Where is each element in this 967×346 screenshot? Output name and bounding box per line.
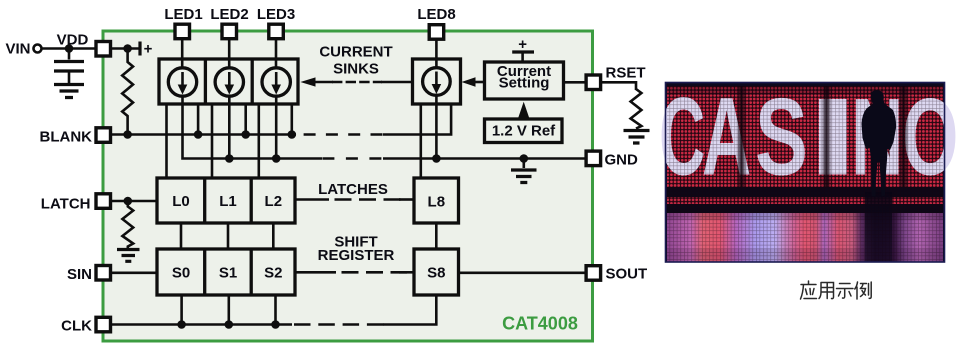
wire sink8 mid to GND rail — [435, 96, 438, 159]
wire CLK rail solid left — [111, 323, 292, 326]
svg-text:S2: S2 — [264, 265, 282, 282]
wire SHIFT line to S8 — [399, 271, 414, 274]
photo border — [666, 83, 945, 263]
pin SIN — [96, 266, 111, 281]
capacitor C1 top lead — [68, 49, 71, 60]
wire L2 to S2 — [272, 223, 275, 249]
node BLANK sink1 — [194, 130, 203, 139]
ground below R3 — [624, 131, 650, 144]
panel seam 1 — [736, 86, 747, 187]
wire CURRENT SINKS arrow dashed — [332, 81, 382, 84]
pin VDD — [96, 42, 111, 57]
svg-text:SOUT: SOUT — [606, 265, 648, 282]
wire sink8 left to L8 — [419, 104, 422, 178]
dot lattice overlay — [667, 86, 943, 262]
supply tap above Current Setting — [521, 53, 524, 63]
svg-text:LED1: LED1 — [164, 6, 202, 23]
wire L1 to S1 — [227, 223, 230, 249]
wire sink3 left to L2 — [257, 104, 260, 178]
node CLK S0 — [177, 320, 186, 329]
svg-text:LED8: LED8 — [417, 6, 455, 23]
pin LATCH — [96, 194, 111, 209]
panel seam 2 — [821, 86, 832, 187]
pin SOUT — [586, 266, 601, 281]
person silhouette — [862, 90, 897, 196]
current source circle I1 — [168, 68, 196, 96]
wire Current Setting to sink8 arrow — [471, 81, 486, 84]
svg-text:RSET: RSET — [606, 65, 646, 82]
pin LED1 — [175, 24, 190, 39]
node BLANK sink2 — [241, 130, 250, 139]
current source circle I2 — [215, 68, 243, 96]
wire CLK rail elbow up to S8 — [383, 295, 436, 325]
wire BLANK rail solid left — [111, 133, 296, 136]
wire GND rail dashed — [322, 157, 385, 160]
svg-text:CAT4008: CAT4008 — [502, 314, 578, 334]
arrow in I2 — [228, 72, 231, 86]
wire L8 to S8 — [435, 223, 438, 249]
svg-text:BLANK: BLANK — [40, 128, 93, 145]
node CLK S2 — [271, 320, 280, 329]
svg-text:S0: S0 — [172, 265, 190, 282]
wire VIN to VDD pin — [42, 47, 96, 50]
wire LATCH pin to L0 — [111, 200, 157, 203]
wire S8 to SOUT pin — [459, 271, 586, 274]
svg-text:SINKS: SINKS — [333, 60, 379, 77]
char 应 — [801, 281, 817, 299]
ground symbol inside chip at GND rail — [522, 159, 525, 169]
panel seam 3 — [898, 86, 909, 187]
wire SHIFT line solid left — [295, 271, 336, 274]
arrow in I8 — [435, 72, 438, 86]
pin LED3 — [269, 24, 284, 39]
latch L8 box — [414, 178, 459, 223]
shift S8 box — [414, 249, 459, 295]
char 例 — [855, 282, 871, 299]
arrowhead into sink8 — [462, 77, 476, 87]
wire sink1 right to BLANK — [197, 104, 200, 135]
svg-text:CURRENT: CURRENT — [319, 44, 392, 61]
svg-text:S1: S1 — [219, 265, 237, 282]
wall top dimming — [667, 86, 943, 95]
svg-text:L8: L8 — [428, 194, 446, 211]
pin RSET — [586, 75, 601, 90]
wire S0 to CLK rail — [180, 295, 183, 325]
svg-text:LATCH: LATCH — [41, 195, 91, 212]
pin CLK — [96, 317, 111, 332]
resistor R3 RSET — [631, 89, 642, 129]
char 示 — [837, 284, 854, 299]
node BLANK sink3 — [288, 130, 297, 139]
LED wall red dot background — [667, 86, 943, 187]
arrowheads — [300, 77, 529, 118]
wire Current Setting to RSET — [563, 81, 586, 84]
wire BLANK rail dashed — [304, 133, 385, 136]
floor — [667, 213, 943, 262]
wire sink1 left to L0 — [165, 104, 168, 178]
svg-text:L0: L0 — [172, 193, 190, 210]
svg-text:L2: L2 — [265, 193, 283, 210]
wire LATCHES line to L8 — [399, 198, 414, 201]
char 用 — [819, 283, 834, 299]
ground below R2 — [117, 250, 140, 262]
application photo: LED CASINO display — [659, 75, 958, 262]
caption 应用示例 (drawn strokes) — [801, 281, 872, 299]
capacitor C1 bottom lead — [68, 73, 71, 84]
svg-text:LATCHES: LATCHES — [318, 181, 388, 198]
wire S2 to CLK rail — [274, 295, 277, 325]
arrow in I1 — [181, 72, 184, 86]
wire LED1 stem — [181, 40, 184, 69]
latch row box L0 L1 L2 — [157, 178, 295, 223]
current sink bank box — [159, 59, 298, 104]
svg-text:VDD: VDD — [57, 32, 89, 49]
arrow in I3 — [275, 72, 278, 86]
svg-text:REGISTER: REGISTER — [318, 247, 395, 264]
1.2 V Ref box — [485, 119, 563, 143]
wire sink2 mid to GND rail — [228, 96, 231, 159]
wire L0 to S0 — [180, 223, 183, 249]
wire SIN pin to S0 — [111, 271, 157, 274]
node CLK S1 — [225, 320, 234, 329]
red dotted strip in band — [667, 197, 943, 204]
svg-text:S8: S8 — [427, 265, 445, 282]
pin LED2 — [222, 24, 237, 39]
resistor R1 VDD pull to BLANK — [122, 49, 133, 135]
pin LED8 — [429, 25, 444, 40]
arrowhead 1.2V Ref up — [518, 102, 529, 118]
resistor R2 LATCH pulldown — [122, 201, 133, 248]
wire S1 to CLK rail — [228, 295, 231, 325]
capacitor C1 plates — [54, 62, 84, 72]
current source circle I8 — [423, 68, 451, 96]
current sink 8 box — [413, 59, 461, 104]
current source arrows — [178, 72, 442, 95]
floor top shading — [667, 213, 943, 220]
svg-text:1.2 V Ref: 1.2 V Ref — [492, 123, 556, 140]
svg-text:Setting: Setting — [499, 75, 550, 92]
arrowhead CURRENT SINKS — [300, 77, 315, 86]
wire LED3 stem — [275, 40, 278, 69]
wire VDD pin to + supply bar — [111, 47, 139, 50]
wire RSET pin to resistor R3 — [602, 82, 637, 90]
Current Setting box — [485, 62, 564, 99]
wire GND rail right to GND pin — [383, 157, 585, 160]
person reflection on floor — [865, 192, 892, 262]
chip body CAT4008 — [103, 31, 593, 341]
svg-text:VIN: VIN — [5, 41, 30, 58]
svg-text:CLK: CLK — [61, 318, 92, 335]
node GND sink2 — [225, 154, 234, 163]
wire LED8 stem — [435, 40, 438, 68]
shift row box S0 S1 S2 — [157, 249, 295, 295]
svg-text:GND: GND — [605, 151, 639, 168]
wire LATCHES line dashed — [335, 198, 403, 201]
node VDD/R1 — [123, 44, 132, 53]
node GND sink3 — [272, 154, 281, 163]
wire sink2 left to L1 — [211, 104, 214, 178]
svg-text:LED3: LED3 — [257, 6, 295, 23]
svg-text:SIN: SIN — [67, 266, 92, 283]
svg-text:LED2: LED2 — [210, 6, 248, 23]
wire BLANK rail right elbow to LED8 cell — [383, 104, 451, 135]
svg-text:L1: L1 — [219, 193, 237, 210]
photo frame — [666, 83, 945, 263]
wire LATCHES line solid left — [295, 198, 329, 201]
node LATCH/R2 — [124, 197, 133, 206]
dark band below wall — [667, 187, 943, 213]
svg-text:+: + — [144, 41, 153, 58]
wire GND rail from sink1 — [183, 96, 323, 159]
node R1/BLANK — [123, 130, 132, 139]
node GND ground — [520, 154, 529, 163]
wire sink2 right to BLANK — [244, 104, 247, 135]
supply + bar — [138, 42, 141, 56]
floor bottom dimming — [667, 249, 943, 262]
current source circle I3 — [262, 68, 290, 96]
pin GND — [586, 151, 601, 166]
component boxes — [157, 59, 564, 295]
pin BLANK — [96, 128, 111, 143]
terminal pins — [96, 24, 601, 332]
svg-text:+: + — [518, 36, 527, 53]
wire CLK rail dashed — [294, 323, 384, 326]
ground below C1 — [54, 85, 84, 98]
terminal VIN circle — [34, 45, 42, 53]
CASINO letters — [659, 75, 958, 199]
wire sink3 mid to GND rail — [275, 96, 278, 159]
node GND sink8 — [432, 154, 441, 163]
wire SHIFT line dashed — [342, 271, 408, 274]
node VDD/C1 — [65, 44, 74, 53]
wire LED2 stem — [228, 40, 231, 69]
wire sink3 right to BLANK — [290, 104, 293, 135]
